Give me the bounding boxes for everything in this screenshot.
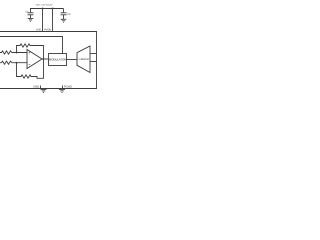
node junction dot IN2 <box>16 62 18 64</box>
modulator block U3 <box>49 54 67 66</box>
capacitor C1 <box>28 9 34 19</box>
wire PGND pin stub <box>62 86 64 89</box>
svg-text:CS: CS <box>67 13 71 16</box>
output stage U4 (H-bridge trapezoid) <box>77 46 90 73</box>
wire op-amp output to modulator <box>42 58 48 60</box>
ground (under C1) <box>28 18 34 21</box>
svg-text:PGND: PGND <box>64 86 72 89</box>
ground (PGND) <box>59 89 65 93</box>
ground (under CS) <box>61 19 67 22</box>
resistor RF1 (top feedback) + wire <box>17 44 44 59</box>
wire VDD pin <box>42 9 44 32</box>
svg-text:VDD = 2.5V TO 5.5V: VDD = 2.5V TO 5.5V <box>36 3 54 6</box>
node junction dot VDD <box>42 8 44 10</box>
resistor RIN1 (top input) <box>0 51 27 54</box>
wire modulator to output stage <box>67 59 78 61</box>
resistor RIN2 (bottom input) <box>0 61 27 64</box>
wire GND pin stub <box>40 86 42 89</box>
wire control line into modulator top <box>0 37 63 54</box>
node junction dot output <box>43 58 45 60</box>
svg-text:GND: GND <box>33 86 39 89</box>
node junction dot IN1 <box>16 52 18 54</box>
wire supply rail V+ <box>30 8 64 10</box>
svg-text:VDD: VDD <box>36 28 41 31</box>
op-amp U2 (differential amplifier) <box>27 50 42 69</box>
ground (GND) <box>41 89 47 93</box>
wire OUT- <box>90 61 97 63</box>
svg-text:PVDD: PVDD <box>44 28 51 31</box>
svg-text:H-BRIDGE: H-BRIDGE <box>79 58 90 61</box>
IC U1 box outline (cropped at left) <box>0 32 97 89</box>
wire PVDD pin <box>52 9 54 32</box>
svg-text:MODULATOR: MODULATOR <box>49 58 68 62</box>
op-amp - input mark <box>29 63 31 65</box>
wire OUT+ <box>90 53 97 55</box>
op-amp + input mark <box>29 52 31 54</box>
resistor RF2 (bottom feedback) + wire <box>17 59 44 78</box>
capacitor CS <box>61 9 67 19</box>
node junction dot PVDD <box>52 8 54 10</box>
